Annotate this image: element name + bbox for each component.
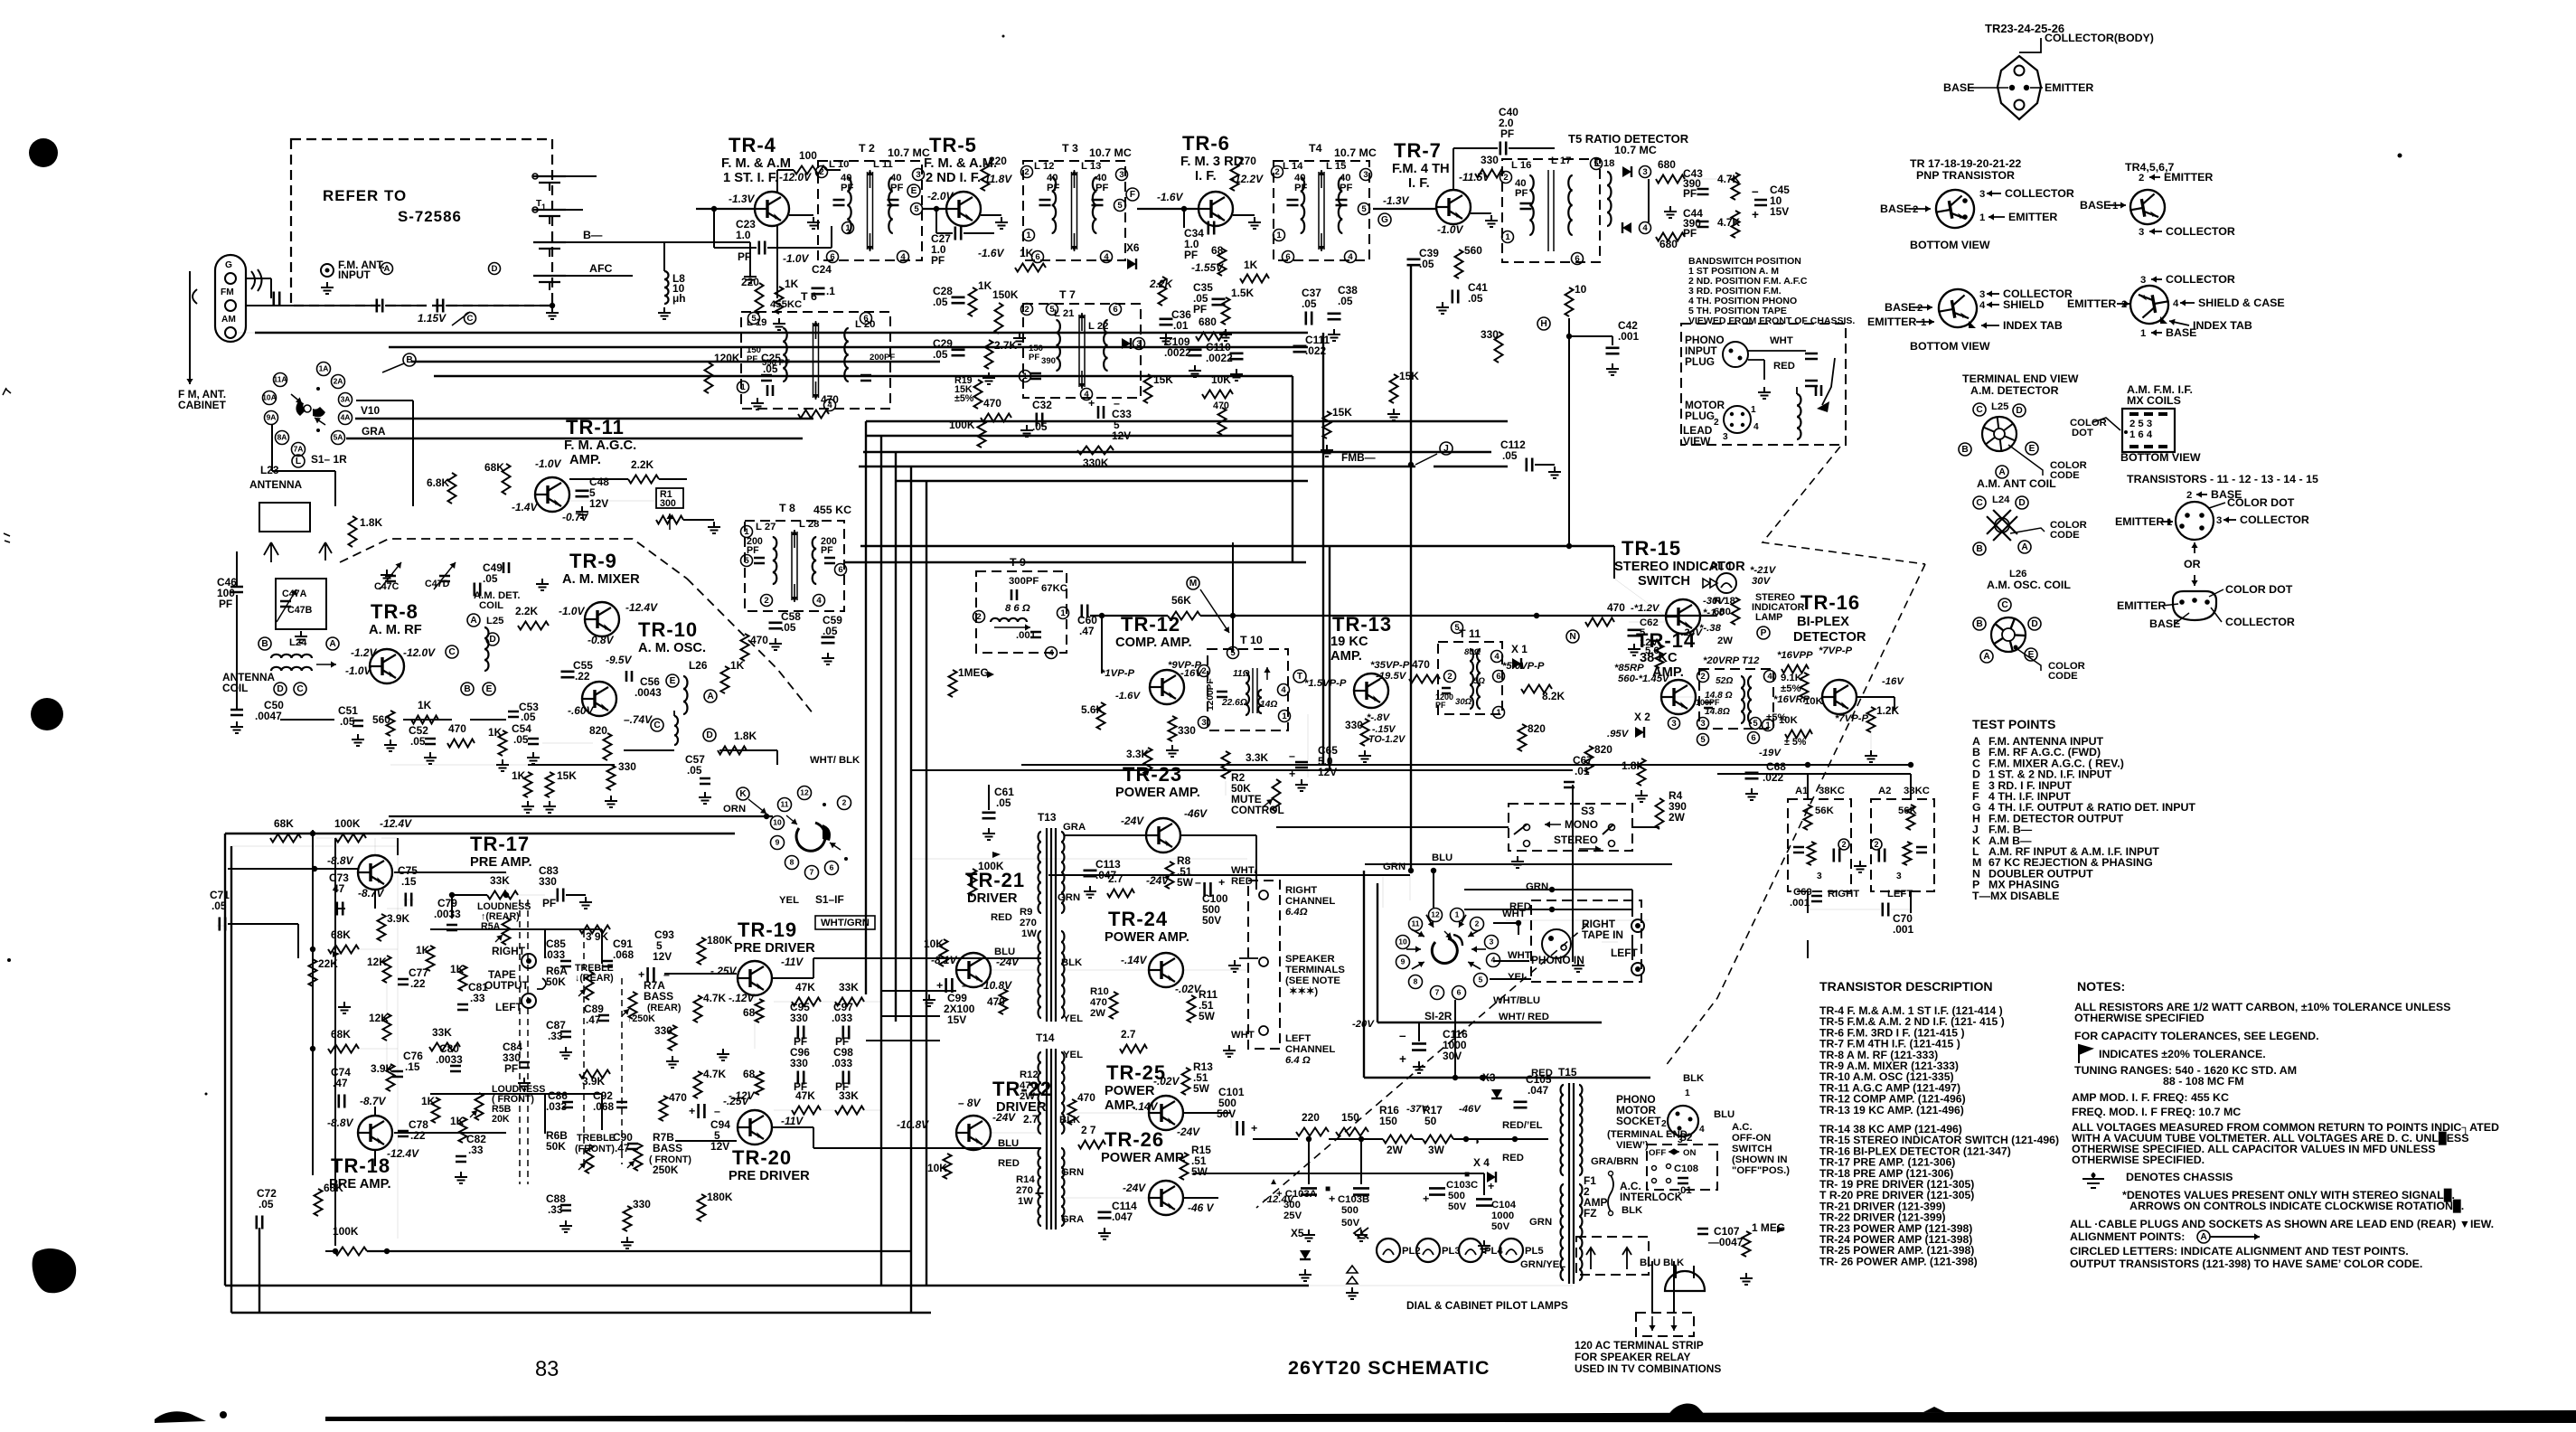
svg-text:560: 560 (1464, 244, 1482, 257)
svg-text:X 1: X 1 (1511, 643, 1528, 655)
svg-text:X6: X6 (1126, 241, 1140, 254)
svg-text:-0.7V: -0.7V (562, 511, 588, 523)
B and C test point arrows (403, 353, 416, 366)
svg-text:83: 83 (535, 1358, 559, 1381)
svg-text:TR-7: TR-7 (1394, 139, 1442, 162)
svg-text:N: N (1569, 632, 1575, 642)
wires TR-19/20 to T13/T14 (772, 977, 813, 979)
svg-text:C47C: C47C (374, 581, 400, 592)
svg-text:TR-15: TR-15 (1622, 537, 1681, 560)
svg-text:25V: 25V (1283, 1211, 1302, 1221)
svg-text:COLLECTOR: COLLECTOR (2166, 273, 2235, 286)
svg-text:L 28: L 28 (799, 519, 819, 530)
svg-text:1 6 4: 1 6 4 (2129, 429, 2153, 440)
svg-text:S2: S2 (1679, 1131, 1693, 1144)
svg-text:*85RP: *85RP (1614, 663, 1644, 674)
wires near TR-14 TR-15 (1613, 546, 1615, 579)
svg-text:47K: 47K (795, 981, 815, 994)
bottom-left small ink blobs (155, 1411, 206, 1423)
svg-text:TO-1.2V: TO-1.2V (1368, 734, 1406, 745)
svg-text:PF: PF (747, 354, 757, 364)
svg-text:DOT: DOT (2072, 428, 2093, 438)
svg-text:300PF: 300PF (1009, 576, 1039, 587)
svg-text:YEL: YEL (1063, 1013, 1083, 1024)
svg-text:*-.38: *-.38 (1699, 623, 1722, 634)
svg-text:OTHERWISE SPECIFIED: OTHERWISE SPECIFIED (2074, 1012, 2205, 1024)
rotor blades (296, 401, 306, 416)
svg-text:PF: PF (747, 545, 759, 556)
phono input plug inset dashed box (1681, 324, 1846, 445)
svg-text:-8.7V: -8.7V (360, 1095, 386, 1107)
svg-text:5A: 5A (334, 433, 343, 442)
svg-text:.05: .05 (513, 733, 529, 746)
stereo switch wires (1276, 826, 1509, 828)
svg-text:6: 6 (830, 252, 834, 262)
svg-text:1: 1 (2140, 328, 2146, 339)
svg-text:A2: A2 (1878, 786, 1891, 796)
svg-text:LAMP: LAMP (1755, 612, 1782, 623)
T5 ratio det can (1502, 159, 1600, 262)
svg-text:-1.0V: -1.0V (559, 605, 585, 617)
svg-text:C: C (1976, 498, 1983, 508)
svg-text:INDICATES ±20% TOLERANCE.: INDICATES ±20% TOLERANCE. (2099, 1048, 2266, 1060)
svg-text:500: 500 (1448, 1191, 1465, 1201)
svg-text:RIGHT: RIGHT (492, 945, 526, 957)
svg-text:-8.1V: -8.1V (931, 954, 957, 966)
svg-text:.05: .05 (1502, 449, 1518, 462)
svg-text:G: G (1381, 215, 1388, 225)
svg-text:3: 3 (2140, 275, 2146, 286)
svg-text:*7VP-P: *7VP-P (1835, 713, 1869, 724)
svg-text:F. M. & A.M: F. M. & A.M (721, 156, 791, 171)
svg-text:.05: .05 (933, 296, 948, 308)
svg-text:+: + (689, 1105, 695, 1117)
svg-text:"OFF"POS.): "OFF"POS.) (1732, 1165, 1790, 1176)
svg-text:-1.0V: -1.0V (1437, 223, 1463, 236)
svg-text:A: A (2200, 1232, 2207, 1242)
E test point arrow (907, 184, 920, 197)
wire from antenna C (237, 332, 255, 334)
svg-text:BI-PLEX: BI-PLEX (1797, 615, 1849, 629)
svg-text:BLU: BLU (1640, 1258, 1660, 1268)
svg-text:-12.0V: -12.0V (779, 171, 812, 184)
svg-text:FZ: FZ (1584, 1207, 1597, 1220)
svg-text:L 27: L 27 (756, 522, 776, 532)
svg-text:-24V: -24V (992, 1111, 1016, 1124)
svg-text:BLK: BLK (1683, 1073, 1705, 1084)
svg-text:10.7 MC: 10.7 MC (1614, 144, 1657, 156)
svg-text:A. M. OSC.: A. M. OSC. (638, 641, 706, 655)
svg-text:L 17: L 17 (1551, 155, 1571, 166)
SI-2R surrounding wires (1363, 871, 1365, 1078)
svg-text:2: 2 (1700, 672, 1705, 682)
svg-text:L 11: L 11 (873, 159, 893, 170)
svg-text:BASE: BASE (1885, 301, 1915, 314)
output bus wires right (1180, 834, 1256, 836)
svg-text:CIRCLED LETTERS: INDICATE ALI: CIRCLED LETTERS: INDICATE ALIGNMENT AND … (2070, 1245, 2409, 1258)
transistor TR-14 (1661, 680, 1696, 714)
svg-text:455 KC: 455 KC (813, 504, 851, 516)
svg-text:2: 2 (1874, 840, 1878, 849)
svg-text:2: 2 (976, 612, 981, 622)
svg-text:C104: C104 (1491, 1200, 1517, 1211)
svg-text:SHIELD: SHIELD (2003, 298, 2044, 311)
svg-text:15V: 15V (947, 1013, 966, 1026)
transistor TR-20 (738, 1110, 772, 1145)
svg-text:-8.8V: -8.8V (327, 1116, 353, 1129)
svg-text:D: D (489, 635, 495, 645)
svg-text:—0047: —0047 (1708, 1236, 1744, 1248)
svg-text:EMITTER: EMITTER (2067, 297, 2116, 310)
svg-text:GRN: GRN (1058, 892, 1080, 903)
svg-text:T 7: T 7 (1059, 288, 1076, 301)
svg-text:+: + (1399, 1052, 1406, 1066)
svg-text:*35VP-P: *35VP-P (1370, 660, 1410, 671)
chassis symbol in notes (2092, 1173, 2096, 1178)
svg-text:4: 4 (2173, 298, 2179, 309)
svg-text:*16VPP: *16VPP (1777, 650, 1813, 661)
svg-text:1W: 1W (1018, 1196, 1033, 1207)
svg-text:CHANNEL: CHANNEL (1285, 1044, 1335, 1055)
svg-text:455KC: 455KC (770, 299, 802, 310)
svg-text:-.02V: -.02V (1153, 1075, 1180, 1088)
svg-text:L: L (296, 457, 301, 466)
svg-text:.05: .05 (1419, 258, 1434, 270)
svg-text:–: – (1752, 184, 1759, 198)
svg-text:1: 1 (845, 223, 851, 233)
svg-text:52Ω: 52Ω (1716, 676, 1733, 686)
S3 mono-stereo switch (1509, 804, 1632, 851)
svg-text:19 KC: 19 KC (1330, 635, 1368, 649)
svg-text:TR-21: TR-21 (965, 869, 1025, 891)
svg-text:12V: 12V (589, 497, 608, 510)
svg-text:.0047: .0047 (255, 710, 282, 722)
svg-text:A.C.: A.C. (1732, 1122, 1753, 1133)
svg-text:1: 1 (1455, 910, 1460, 919)
wires T5 outputs (1678, 178, 1717, 180)
svg-text:120 AC TERMINAL STRIP: 120 AC TERMINAL STRIP (1575, 1339, 1704, 1352)
svg-text:-19.5V: -19.5V (1376, 671, 1407, 682)
svg-text:1A: 1A (319, 364, 329, 373)
svg-text:820: 820 (1528, 722, 1546, 735)
svg-text:C47B: C47B (287, 605, 313, 616)
svg-text:AMP MOD. I. F. FREQ: 455 K: AMP MOD. I. F. FREQ: 455 KC (2072, 1091, 2229, 1104)
svg-text:E: E (911, 186, 917, 196)
svg-text:2.7: 2.7 (1023, 1113, 1039, 1126)
svg-text:YEL: YEL (779, 895, 799, 906)
svg-text:1000: 1000 (1491, 1211, 1514, 1221)
svg-text:-.14V: -.14V (1132, 1100, 1158, 1113)
svg-text:COLLECTOR: COLLECTOR (2225, 616, 2295, 628)
svg-text:M: M (1189, 579, 1198, 589)
svg-text:D: D (2018, 498, 2025, 508)
svg-text:.0033: .0033 (436, 1053, 463, 1066)
svg-text:1: 1 (1751, 405, 1756, 415)
svg-text:PF: PF (1340, 183, 1353, 193)
svg-text:3: 3 (1119, 170, 1123, 180)
svg-text:.05: .05 (996, 796, 1011, 809)
punch-hole blob top-left (29, 138, 58, 167)
svg-text:.05: .05 (823, 625, 838, 637)
svg-text:330: 330 (1178, 724, 1196, 737)
svg-text:FOR SPEAKER RELAY: FOR SPEAKER RELAY (1575, 1351, 1690, 1363)
svg-text:LEFT: LEFT (1285, 1033, 1311, 1044)
svg-text:6: 6 (1496, 672, 1500, 682)
svg-text:H: H (1540, 319, 1547, 329)
svg-text:CODE: CODE (2048, 671, 2078, 682)
svg-text:-1.2V: -1.2V (351, 646, 377, 659)
svg-text:I. F.: I. F. (1195, 169, 1217, 184)
svg-text:2: 2 (1841, 840, 1846, 849)
svg-text:2.2K: 2.2K (1149, 278, 1174, 290)
svg-text:AMP.: AMP. (1330, 649, 1362, 664)
svg-text:12: 12 (1431, 910, 1440, 919)
svg-text:S1–IF: S1–IF (815, 893, 844, 906)
svg-text:9: 9 (776, 838, 780, 847)
coil to D (674, 716, 678, 745)
svg-text:-.60V: -.60V (568, 704, 594, 717)
svg-text:L 13: L 13 (1081, 161, 1101, 172)
svg-text:A: A (707, 692, 714, 702)
svg-text:.01: .01 (1173, 319, 1189, 332)
transistor TR-21 (956, 953, 991, 987)
svg-text:–: – (1195, 876, 1201, 889)
svg-text:.05: .05 (1338, 295, 1353, 307)
svg-text:9A: 9A (267, 413, 277, 422)
transistor TR-9 (585, 602, 619, 636)
svg-text:2: 2 (764, 596, 768, 606)
svg-text:OTHERWISE SPECIFIED.: OTHERWISE SPECIFIED. (2072, 1154, 2205, 1166)
svg-text:-1.6V: -1.6V (1157, 191, 1183, 203)
svg-text:1: 1 (1921, 317, 1926, 328)
transistor TR-15 (1666, 599, 1700, 634)
svg-text:COLLECTOR: COLLECTOR (2005, 187, 2074, 200)
svg-text:B—: B— (583, 229, 603, 241)
svg-text:L 18: L 18 (1594, 158, 1614, 169)
svg-text:1K: 1K (512, 769, 526, 782)
120AC terminal strip (1636, 1313, 1694, 1336)
svg-text:.22: .22 (410, 1129, 426, 1142)
preamp wires horizontal runs (430, 928, 602, 930)
svg-text:470: 470 (448, 722, 466, 735)
svg-text:PF: PF (542, 897, 556, 909)
svg-text:3: 3 (1979, 189, 1985, 200)
svg-text:L24: L24 (289, 637, 307, 648)
svg-text:.33: .33 (468, 1144, 484, 1156)
svg-text:L 10: L 10 (829, 159, 849, 170)
svg-text:3: 3 (1363, 170, 1368, 180)
svg-text:TR- 26 POWER AMP. (121-398): TR- 26 POWER AMP. (121-398) (1819, 1255, 1978, 1267)
svg-text:2: 2 (2186, 490, 2192, 501)
svg-text:F. M. A.G.C.: F. M. A.G.C. (564, 438, 636, 453)
svg-text:7: 7 (1435, 988, 1440, 997)
svg-text:R5A: R5A (481, 921, 501, 932)
svg-text:C: C (296, 684, 304, 694)
svg-text:270: 270 (1016, 1185, 1033, 1196)
svg-text:-46V: -46V (1184, 807, 1208, 820)
svg-text:.0022: .0022 (1206, 352, 1233, 364)
legend 4-lead pinout shield-case B (2128, 283, 2172, 327)
svg-text:(SHOWN IN: (SHOWN IN (1732, 1154, 1788, 1165)
svg-text:68: 68 (743, 1068, 756, 1080)
svg-text:–: – (1399, 1029, 1406, 1042)
svg-text:.01: .01 (1575, 765, 1590, 777)
svg-text:C: C (467, 314, 474, 324)
svg-text:1MEG: 1MEG (958, 666, 989, 679)
svg-text:B: B (464, 684, 470, 694)
svg-text:1: 1 (2167, 517, 2172, 528)
svg-text:A: A (384, 264, 390, 274)
svg-text:D: D (277, 684, 283, 694)
svg-text:1: 1 (1979, 212, 1985, 223)
svg-text:BASE: BASE (2080, 199, 2111, 212)
svg-text:ANTENNA: ANTENNA (249, 478, 303, 491)
svg-text:67KC: 67KC (1041, 583, 1067, 594)
svg-text:5W: 5W (1193, 1082, 1210, 1095)
transistor TR-19 (738, 961, 772, 995)
svg-text:.05: .05 (763, 363, 778, 375)
svg-text:3.9K: 3.9K (387, 912, 410, 925)
svg-text:2: 2 (1447, 672, 1452, 682)
svg-text:-1.3V: -1.3V (729, 193, 755, 205)
svg-text:390: 390 (1041, 356, 1056, 366)
svg-text:PRE DRIVER: PRE DRIVER (729, 1169, 810, 1183)
svg-text:◑: ◑ (1473, 1136, 1480, 1147)
svg-text:4: 4 (1699, 1125, 1705, 1135)
horizontal bus wires upper (255, 332, 1308, 334)
circled 3 5 1 6 pins near X2 (1669, 718, 1680, 730)
svg-text:–: – (962, 979, 968, 992)
svg-text:T15: T15 (1558, 1066, 1577, 1079)
svg-text:EMITTER: EMITTER (2164, 171, 2213, 184)
svg-text:*1.5VP-P: *1.5VP-P (1304, 678, 1347, 689)
svg-text:26YT20 SCHEMATIC: 26YT20 SCHEMATIC (1288, 1357, 1490, 1379)
svg-text:6: 6 (1575, 254, 1579, 264)
svg-text:PF: PF (890, 183, 904, 193)
svg-text:TR-23: TR-23 (1123, 763, 1182, 786)
svg-text:.033: .033 (544, 948, 566, 961)
svg-text:S-72586: S-72586 (398, 208, 462, 225)
svg-text:3: 3 (916, 170, 920, 180)
tape in jacks (1631, 919, 1644, 932)
svg-text:AFC: AFC (589, 262, 613, 275)
left vertical rails in preamp (334, 838, 336, 1246)
svg-text:PF: PF (1047, 183, 1060, 193)
svg-text:3.3K: 3.3K (1246, 751, 1269, 764)
svg-text:-24V: -24V (1123, 1182, 1146, 1194)
svg-text:*-21V: *-21V (1750, 565, 1777, 576)
svg-text:4.7K: 4.7K (703, 1068, 727, 1080)
TR-16 output wires (1857, 696, 1894, 698)
svg-text:PF: PF (1294, 183, 1308, 193)
svg-text:+: + (1088, 397, 1095, 410)
svg-text:6: 6 (1113, 305, 1117, 315)
svg-text:–: – (1114, 397, 1120, 410)
svg-text:GRN: GRN (1526, 881, 1548, 892)
svg-text:PF: PF (1184, 249, 1198, 261)
svg-text:-.25V: -.25V (710, 965, 737, 977)
svg-text:-16V: -16V (1180, 668, 1203, 679)
svg-text:T—MX DISABLE: T—MX DISABLE (1972, 890, 2059, 902)
horizontal preamp-to-driver wires (881, 990, 956, 992)
svg-text:1 ST. I. F.: 1 ST. I. F. (723, 171, 778, 185)
svg-text:MONO: MONO (1565, 818, 1598, 831)
svg-text:VIEW: VIEW (1683, 435, 1711, 447)
svg-text:L25: L25 (1991, 401, 2008, 412)
svg-text:3W: 3W (1428, 1144, 1445, 1156)
svg-text:– 8V: – 8V (958, 1097, 982, 1109)
svg-text:50V: 50V (1341, 1218, 1360, 1229)
svg-text:WHT: WHT (1231, 1030, 1255, 1041)
svg-text:PF: PF (504, 1062, 518, 1075)
svg-text:4: 4 (900, 252, 906, 262)
svg-text:100: 100 (799, 149, 817, 162)
svg-text:-19V: -19V (1759, 748, 1782, 758)
svg-text:3: 3 (2216, 515, 2222, 526)
tuning gang capacitor symbols in dashed box (533, 175, 566, 177)
svg-text:68K: 68K (324, 1182, 343, 1194)
svg-text:ALL ·CABLE PLUGS AND SOCKETS A: ALL ·CABLE PLUGS AND SOCKETS AS SHOWN AR… (2070, 1218, 2494, 1230)
transistor TR-17 (358, 855, 392, 890)
svg-text:F. M. 3 RD: F. M. 3 RD (1180, 155, 1243, 169)
svg-text:GRA: GRA (362, 425, 386, 438)
svg-text:5: 5 (1753, 719, 1758, 729)
antenna coil L24 (271, 655, 312, 658)
svg-text:CABINET: CABINET (178, 399, 227, 411)
svg-text:R10: R10 (1090, 986, 1109, 997)
SI-2R spoke arrows (1412, 929, 1424, 937)
svg-text:WHT/ BLK: WHT/ BLK (810, 755, 860, 766)
wires TR-19 feedback rails (774, 1001, 792, 1003)
svg-text:7A: 7A (294, 445, 304, 454)
svg-text:+: + (1329, 1192, 1335, 1205)
svg-text:150K: 150K (992, 288, 1019, 301)
svg-text:SPEAKER: SPEAKER (1285, 954, 1335, 965)
vertical buses from mid to bottom (865, 421, 867, 994)
svg-text:4A: 4A (341, 413, 351, 422)
svg-text:TR-19: TR-19 (738, 919, 797, 941)
svg-text:DETECTOR: DETECTOR (1793, 630, 1866, 645)
svg-text:2 ND I. F.: 2 ND I. F. (926, 171, 981, 185)
loudness gang dashed link (519, 900, 521, 1184)
svg-text:YEL: YEL (1063, 1050, 1083, 1060)
svg-text:TR-5: TR-5 (929, 134, 977, 156)
svg-text:SWITCH: SWITCH (1732, 1144, 1772, 1154)
svg-text:A.M. DETECTOR: A.M. DETECTOR (1970, 384, 2059, 397)
svg-text:PF: PF (1193, 303, 1207, 316)
svg-text:PF: PF (1029, 353, 1039, 363)
C47A C47B trimmer box (276, 579, 326, 629)
svg-text:RED: RED (1531, 1068, 1553, 1079)
svg-text:330: 330 (790, 1012, 808, 1024)
svg-text:OFF-ON: OFF-ON (1732, 1133, 1771, 1144)
svg-text:ARROWS ON CONTROLS INDICATE CL: ARROWS ON CONTROLS INDICATE CLOCKWISE RO… (2129, 1199, 2464, 1213)
svg-text:10A: 10A (262, 393, 277, 402)
svg-text:-.12V: -.12V (729, 1089, 755, 1102)
svg-text:.47: .47 (1079, 625, 1095, 637)
svg-text:PF: PF (1515, 188, 1528, 199)
svg-text:1200PF: 1200PF (1206, 678, 1216, 711)
svg-text:BASS: BASS (644, 990, 673, 1003)
svg-text:-12.4V: -12.4V (387, 1147, 419, 1160)
transistor TR-13 (1354, 674, 1388, 708)
svg-text:DRIVER: DRIVER (967, 891, 1018, 906)
transistor TR-18 (358, 1116, 392, 1150)
svg-text:330: 330 (539, 875, 557, 888)
svg-text:TR-9: TR-9 (569, 550, 617, 572)
transistor TR-12 (1150, 670, 1184, 704)
svg-text:PL5: PL5 (1525, 1246, 1544, 1257)
